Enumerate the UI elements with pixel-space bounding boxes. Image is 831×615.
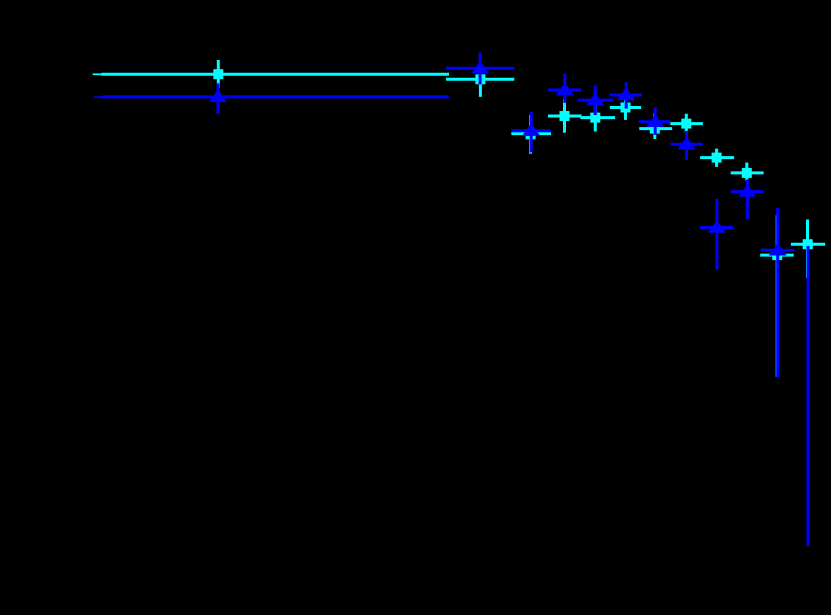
blue point 6 marker	[617, 88, 635, 101]
cyan point 8 marker	[681, 119, 691, 129]
blue point 9 error bars	[700, 199, 734, 270]
blue point 1 error bars	[93, 83, 448, 114]
blue point 12 lower error bar	[807, 246, 810, 546]
blue point 2 marker	[471, 61, 489, 74]
blue point 5 marker	[586, 93, 604, 106]
blue point 8 marker	[678, 137, 696, 150]
blue point 11 marker	[769, 243, 787, 256]
blue point 4 error bars	[548, 74, 581, 103]
cyan point 11 marker	[772, 250, 782, 260]
cyan point 4 error bars	[548, 99, 582, 133]
cyan point 10 error bars	[731, 163, 764, 181]
cyan point 9 error bars	[700, 149, 734, 167]
cyan point 6 error bars	[610, 95, 641, 120]
blue point 9 marker	[708, 220, 726, 233]
cyan point 1 marker	[213, 69, 223, 79]
blue point 6 error bars	[610, 82, 643, 108]
cyan point 5 marker	[590, 113, 600, 123]
cyan point 5 error bars	[580, 103, 615, 132]
blue point 11 error bars	[761, 208, 795, 377]
cyan point 12 marker	[803, 239, 813, 249]
cyan point 10 marker	[742, 168, 752, 178]
blue point 7 error bars	[639, 108, 670, 135]
cyan point 7 marker	[650, 124, 660, 134]
blue point 7 marker	[646, 114, 664, 127]
blue point 1 marker	[209, 89, 227, 102]
cyan point 3 error bars	[511, 115, 551, 154]
blue point 2 error bars	[446, 53, 514, 85]
cyan point 8 error bars	[670, 114, 703, 133]
blue point 10 marker	[738, 184, 756, 197]
cyan point 2 error bars	[446, 64, 514, 97]
cyan point 7 error bars	[639, 113, 672, 139]
blue point 10 error bars	[731, 180, 764, 220]
cyan point 9 marker	[712, 153, 722, 163]
cyan point 11 error bars	[760, 215, 794, 377]
blue point 4 marker	[556, 83, 574, 96]
cyan point 6 marker	[621, 103, 631, 113]
blue point 5 error bars	[578, 86, 613, 116]
blue point 3 marker	[522, 123, 540, 136]
cyan point 2 marker	[475, 74, 485, 84]
cyan point 12 error bars	[791, 220, 825, 279]
cyan point 4 marker	[560, 111, 570, 121]
blue point 8 error bars	[670, 131, 703, 160]
cyan point 1 error bars	[93, 60, 449, 88]
cyan point 3 marker	[526, 129, 536, 139]
blue point 3 error bars	[511, 112, 551, 153]
